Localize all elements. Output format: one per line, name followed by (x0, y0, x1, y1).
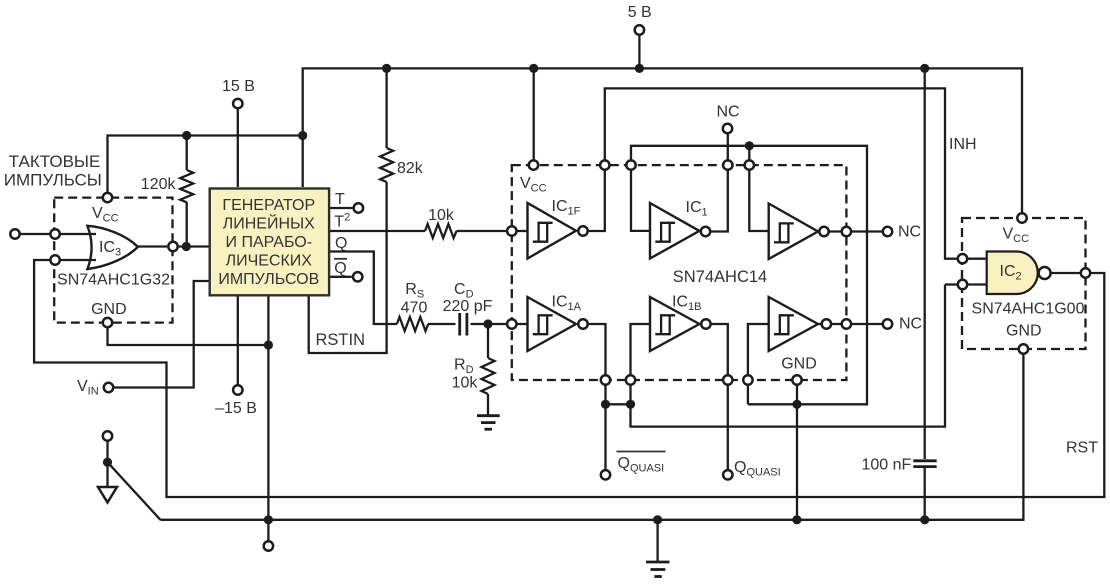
svg-text:15 В: 15 В (222, 78, 255, 95)
svg-text:ИМПУЛЬСЫ: ИМПУЛЬСЫ (4, 171, 102, 190)
svg-text:NC: NC (898, 224, 921, 241)
svg-text:470: 470 (401, 300, 428, 317)
svg-text:5 В: 5 В (628, 4, 652, 21)
svg-text:SN74AHC1G32: SN74AHC1G32 (57, 272, 170, 289)
svg-text:GND: GND (1006, 323, 1042, 340)
svg-text:NC: NC (716, 104, 739, 121)
svg-text:220 pF: 220 pF (443, 298, 493, 315)
svg-text:ЛИЧЕСКИХ: ЛИЧЕСКИХ (226, 253, 313, 270)
svg-text:GND: GND (781, 356, 817, 373)
svg-text:ГЕНЕРАТОР: ГЕНЕРАТОР (222, 197, 315, 214)
svg-text:ИМПУЛЬСОВ: ИМПУЛЬСОВ (218, 271, 319, 288)
svg-text:ТАКТОВЫЕ: ТАКТОВЫЕ (9, 152, 101, 171)
svg-text:–15 В: –15 В (215, 400, 257, 417)
svg-text:T: T (335, 191, 345, 208)
svg-text:GND: GND (91, 301, 127, 318)
svg-text:И ПАРАБО-: И ПАРАБО- (226, 234, 312, 251)
svg-text:10k: 10k (428, 207, 455, 224)
svg-text:NC: NC (899, 316, 922, 333)
svg-text:RST: RST (1066, 440, 1098, 457)
svg-text:Q: Q (334, 260, 346, 277)
svg-text:82k: 82k (397, 160, 424, 177)
svg-text:ЛИНЕЙНЫХ: ЛИНЕЙНЫХ (223, 214, 315, 233)
svg-text:120k: 120k (141, 176, 177, 193)
svg-text:SN74AHC1G00: SN74AHC1G00 (972, 301, 1085, 318)
svg-text:10k: 10k (452, 375, 479, 392)
svg-text:SN74AHC14: SN74AHC14 (673, 268, 767, 286)
svg-text:RSTIN: RSTIN (316, 331, 366, 349)
svg-text:100 nF: 100 nF (862, 457, 912, 474)
svg-text:INH: INH (949, 136, 977, 153)
svg-text:Q: Q (335, 235, 347, 252)
